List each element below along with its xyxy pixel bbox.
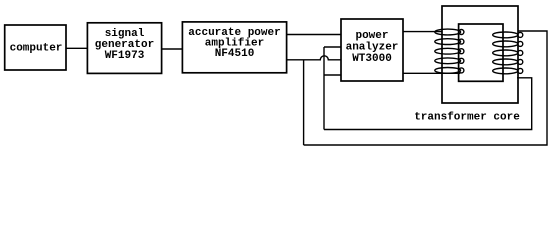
block: signal generator WF1973 bbox=[87, 23, 161, 74]
vertical wire A bbox=[323, 47, 325, 130]
wire W3 amplifier to analyzer with hop bbox=[287, 56, 341, 60]
block: computer bbox=[5, 25, 66, 70]
block: power analyzer WT3000 bbox=[341, 19, 403, 81]
block: accurate power amplifier NF4510 bbox=[182, 22, 286, 73]
transformer core inner rectangle bbox=[459, 24, 503, 81]
vertical wire B bbox=[303, 60, 305, 145]
svg-text:power: power bbox=[355, 30, 388, 42]
primary winding (left coil) bbox=[435, 29, 464, 73]
svg-text:analyzer: analyzer bbox=[346, 42, 399, 54]
wire computer to signal generator bbox=[66, 47, 87, 49]
wire signal generator to amplifier bbox=[162, 48, 183, 50]
wire W4 vertical tap to analyzer bbox=[324, 74, 341, 76]
bottom feedback wire B to secondary top bbox=[304, 31, 547, 145]
svg-text:WT3000: WT3000 bbox=[352, 53, 392, 65]
svg-text:computer: computer bbox=[10, 43, 63, 55]
secondary winding (right coil) bbox=[493, 32, 523, 74]
wire analyzer to primary bottom bbox=[403, 72, 460, 74]
wire W2 vertical tap to analyzer bbox=[324, 46, 341, 48]
bottom feedback wire A to secondary bottom bbox=[324, 78, 532, 130]
transformer core outer rectangle bbox=[442, 6, 518, 103]
svg-text:NF4510: NF4510 bbox=[215, 48, 255, 60]
svg-text:transformer core: transformer core bbox=[414, 112, 520, 124]
svg-text:WF1973: WF1973 bbox=[105, 50, 145, 62]
wire W1 amplifier to analyzer (top) bbox=[287, 34, 341, 36]
wire analyzer to primary top bbox=[403, 31, 442, 33]
